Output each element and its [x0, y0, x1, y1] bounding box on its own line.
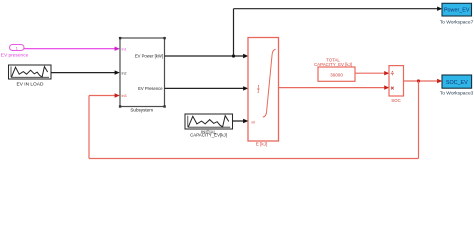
constant TOTAL CAPACITY_EV — [318, 67, 355, 81]
wire initial capacity to integrator port 3 — [233, 119, 249, 123]
integrator E [kJ] — [248, 38, 279, 142]
wire constant to divide top input — [355, 71, 389, 75]
subsystem block — [119, 37, 166, 108]
svg-text:Subsystem: Subsystem — [130, 107, 153, 112]
svg-text:CAPACITY_EV[kJ]: CAPACITY_EV[kJ] — [190, 133, 227, 138]
wire EV IN LOAD to In2 — [51, 70, 120, 74]
svg-text:In1: In1 — [122, 47, 127, 51]
wire EV Presence to integrator port 2 — [165, 86, 249, 90]
svg-text:EV Presence: EV Presence — [138, 86, 163, 91]
wire SOC to SOC_EV — [404, 79, 443, 83]
svg-text:EV presence: EV presence — [1, 53, 29, 59]
svg-text:EV Power [kW]: EV Power [kW] — [135, 54, 163, 59]
svg-text:E [kJ]: E [kJ] — [256, 141, 268, 146]
svg-text:x0: x0 — [251, 120, 255, 124]
svg-text:To Workspace3: To Workspace3 — [440, 91, 474, 97]
svg-text:CAPACITY_EV [kJ]: CAPACITY_EV [kJ] — [314, 62, 352, 67]
junction node at EV Power branch — [232, 54, 235, 57]
svg-text:EV IN LOAD: EV IN LOAD — [17, 81, 44, 87]
svg-text:Power_EV: Power_EV — [444, 8, 470, 14]
wire EV presence to In1 — [24, 47, 120, 51]
label TOTAL CAPACITY_EV [kJ] — [314, 58, 352, 67]
signal builder EV IN LOAD — [9, 65, 52, 79]
svg-text:To Workspace7: To Workspace7 — [440, 19, 474, 25]
reset port symbol — [257, 86, 260, 93]
wire EV Power to integrator port 1 — [165, 54, 249, 58]
svg-text:36000: 36000 — [330, 72, 343, 77]
wire integrator output to divide bottom input — [279, 85, 390, 89]
junction node SOC branch — [417, 79, 420, 82]
feedback wire SOC to In3 — [89, 81, 419, 159]
svg-text:SOC: SOC — [391, 98, 401, 103]
svg-text:In2: In2 — [122, 71, 127, 75]
to-workspace SOC_EV — [442, 75, 472, 88]
svg-text:SOC_EV: SOC_EV — [446, 80, 468, 86]
label INITIAL CAPACITY_EV[kJ] — [190, 129, 227, 137]
wire branch up to Power_EV — [234, 7, 443, 57]
to-workspace Power_EV — [442, 3, 472, 16]
svg-text:In3: In3 — [122, 94, 127, 98]
divide SOC — [389, 66, 404, 96]
inport EV presence — [10, 45, 25, 51]
signal builder INITIAL CAPACITY_EV — [185, 114, 233, 129]
